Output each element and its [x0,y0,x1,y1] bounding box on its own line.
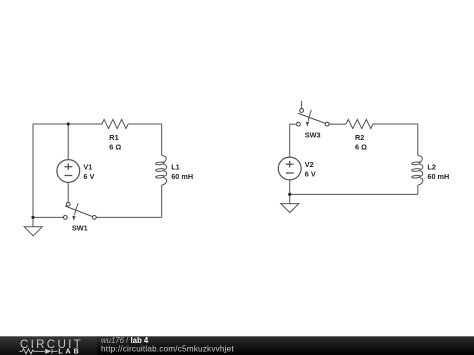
svg-text:60 mH: 60 mH [427,172,449,181]
svg-text:V1: V1 [83,163,92,172]
svg-text:R2: R2 [355,133,364,142]
svg-text:6 Ω: 6 Ω [355,143,367,152]
svg-text:L2: L2 [427,163,436,172]
svg-text:6 V: 6 V [83,172,94,181]
svg-text:V2: V2 [305,160,314,169]
svg-text:6 Ω: 6 Ω [109,143,121,152]
svg-text:SW3: SW3 [305,130,321,139]
svg-text:6 V: 6 V [305,170,316,179]
svg-text:L1: L1 [171,163,180,172]
svg-text:60 mH: 60 mH [171,172,193,181]
svg-text:LAB: LAB [58,347,82,355]
svg-text:http://circuitlab.com/c5mkuzkv: http://circuitlab.com/c5mkuzkvvhjet [101,344,234,353]
svg-text:R1: R1 [109,133,118,142]
svg-text:SW1: SW1 [72,224,88,233]
